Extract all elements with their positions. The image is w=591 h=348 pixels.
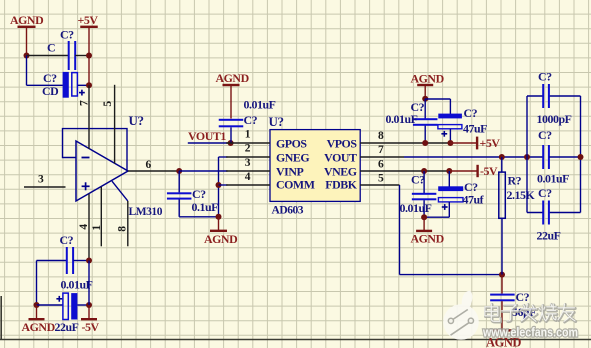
svg-text:AGND: AGND [22,320,55,334]
wire rowA right [73,260,89,262]
node: junction AGND (bottom-right) [421,214,427,220]
svg-text:C?: C? [538,128,552,142]
wire C 47uf to VNEG [448,171,450,187]
node: junction +5V/row1 [86,53,92,59]
svg-text:5: 5 [378,172,384,184]
svg-text:VOUT1: VOUT1 [188,129,226,143]
pin 6 VNEG [360,170,449,172]
node: op-amp output junction [176,168,182,174]
svg-text:C?: C? [538,70,552,84]
wire GNEG/COMM vertical [218,157,220,217]
svg-text:U?: U? [269,114,284,129]
svg-text:C?: C? [244,113,258,127]
wire C 0.01uF to VPOS [424,126,426,143]
polarity + (22uF) [56,298,62,300]
svg-text:0.01uF: 0.01uF [244,98,276,112]
power symbol AGND (0.1uF) [218,217,220,230]
wire ladder mid rung right [549,156,581,158]
wire ladder bottom rung [527,212,543,214]
svg-text:VNEG: VNEG [324,164,357,178]
resistor R? 2.15K body [499,172,506,218]
wire FDBK cap bottom lead [501,301,503,329]
wire C 47uF to VPOS [449,129,451,143]
pin 8 VPOS [360,142,450,144]
svg-text:5: 5 [102,101,114,107]
svg-text:GPOS: GPOS [276,137,307,151]
capacitor C? 47uF electrolytic (top-right) [438,114,462,119]
node: junction +5V/row2 [86,82,92,88]
svg-text:6: 6 [378,158,384,170]
capacitor C? 0.1uF [167,192,192,194]
capacitor C? 22uF (ladder) [542,201,544,225]
wire 47uf to AGND rail (bottom-right) [448,202,450,217]
pin 1 (op-amp) [100,187,102,247]
capacitor C? 0.01uF (ladder mid) [542,145,544,169]
svg-text:0.1uF: 0.1uF [192,200,219,214]
svg-text:0.01uF: 0.01uF [61,278,93,292]
svg-text:0.01uF: 0.01uF [386,112,418,126]
svg-text:7: 7 [378,144,384,156]
polarity + (47uF top) [441,133,447,135]
wire row1 right [75,55,89,57]
pin 8 (op-amp) [127,201,129,246]
power symbol AGND (FDBK) [493,329,512,331]
svg-text:C?: C? [464,106,478,120]
svg-text:22uF: 22uF [537,229,561,243]
pin 1 GPOS [226,142,270,144]
power symbol AGND (bottom-left) [36,305,38,319]
node: junction AGND/rowB [34,302,40,308]
wire FDBK cap top lead [501,275,503,294]
wire row2 right [78,84,89,86]
op-amp U? body (triangle) [76,141,128,201]
node: junction AGND rail [216,214,222,220]
capacitor C? 0.01uF (VOUT1) [219,119,244,121]
polarity + (47uf bottom) [442,206,448,208]
power symbol -5V (bottom-left) [88,305,90,319]
svg-text:8: 8 [117,226,129,232]
svg-text:C?: C? [538,186,552,200]
svg-text:VINP: VINP [276,164,303,178]
svg-text:C?: C? [516,290,530,304]
wire FDBK right [400,274,503,276]
power symbol AGND (bottom-right) [423,217,425,230]
wire ladder top rung [527,95,543,97]
wire VOUT to right ladder [404,156,543,158]
op-amp inverting input symbol - [82,157,90,159]
power symbol -5V (right) [449,170,477,172]
svg-text:0.01uF: 0.01uF [537,172,569,186]
svg-text:47uf: 47uf [463,193,485,207]
capacitor C? 0.01uF (bottom-left) [66,247,68,274]
svg-text:AGND: AGND [10,13,43,27]
svg-text:C?: C? [411,173,425,187]
wire ladder right vertical [580,96,582,213]
svg-text:3: 3 [245,157,251,169]
svg-text:C?: C? [43,71,57,85]
wire left vertical AGND to row2 [26,56,28,86]
wire rowB right [77,304,89,306]
wire R top lead [501,157,503,172]
node: junction AGND branch (top-right) [422,96,428,102]
op-amp non-inverting input symbol + [82,185,90,187]
wire C 0.01uF to AGND (bottom-right) [423,200,425,217]
polarity + (cap CD) [79,92,85,94]
svg-text:AGND: AGND [411,232,444,246]
svg-text:GNEG: GNEG [276,151,309,165]
wire row2 left [27,84,63,86]
wire VOUT1 [188,142,231,144]
wire VNEG to C 0.01uF [423,171,425,193]
watermark text dian-zi-fa-shao-you [485,304,576,322]
svg-text:AD603: AD603 [272,205,304,217]
svg-text:1000pF: 1000pF [537,112,572,126]
wire output to C 0.1uF [178,171,180,192]
wire row1 left [27,55,69,57]
node: junction VOUT1/cap [228,140,234,146]
node: junction AGND/row1 [24,53,30,59]
wire op-amp output to AD603 [179,170,227,172]
wire pin4 to -5V [88,261,90,306]
svg-text:CD: CD [42,84,58,98]
sheet border left [0,296,2,340]
svg-text:C?: C? [60,233,74,247]
svg-text:1: 1 [91,225,103,231]
svg-text:-5V: -5V [82,320,100,334]
capacitor C? 'C' (top-left) [68,41,70,70]
pin 2 GNEG [226,156,270,158]
svg-text:www.elecfans.com: www.elecfans.com [482,326,578,340]
svg-text:R?: R? [508,174,522,188]
svg-text:2.15K: 2.15K [507,188,536,202]
wire FDBK down [399,185,401,275]
svg-text:7: 7 [79,100,91,106]
svg-text:AGND: AGND [204,232,237,246]
pin 4 COMM [226,184,270,186]
capacitor C? 'CD' electrolytic (top-left) [63,72,69,98]
pin 8 lead diagonal (op-amp) [112,181,128,201]
capacitor C? 0.01uF (top-right) [413,118,438,120]
op-amp feedback wire loop [63,129,128,171]
wire cap to VOUT1 [230,127,232,143]
svg-text:47uF: 47uF [463,122,487,136]
pin 4 (op-amp V-) [88,194,90,261]
pin 7 (op-amp V+) [88,85,90,149]
pin 7 VOUT [360,156,404,158]
wire AGND branch to 47uF [425,98,450,100]
node: junction 0.01uF/VNEG [421,168,427,174]
pin 6 (op-amp output) [128,170,179,172]
svg-text:4: 4 [245,171,251,183]
capacitor C? 1000pF [542,84,544,108]
svg-text:FDBK: FDBK [325,178,357,192]
node: junction ladder right [578,154,584,160]
pin 3 (op-amp + input) [24,186,66,188]
svg-text:0.01uF: 0.01uF [400,201,432,215]
node: junction VOUT/ladder-left [524,154,530,160]
svg-text:+5V: +5V [78,13,99,27]
wire GNEG stub [219,156,228,158]
svg-text:8: 8 [378,130,384,142]
wire rowA left [37,260,68,262]
node: junction FDBK/R/C [499,272,505,278]
svg-text:LM310: LM310 [129,206,163,218]
svg-text:+5V: +5V [480,136,501,150]
node: junction -5V/rowB [86,302,92,308]
wire rowB left [37,304,64,306]
node: junction COMM [216,182,222,188]
svg-text:22uF: 22uF [55,320,79,334]
svg-text:C: C [47,41,55,55]
svg-text:3: 3 [38,174,44,186]
node: junction 47uF/VPOS [447,140,453,146]
node: junction 47uf/VNEG [446,168,452,174]
svg-text:C?: C? [192,187,206,201]
svg-text:2: 2 [245,143,251,155]
wire COMM stub [219,184,228,186]
svg-text:AGND: AGND [216,71,249,85]
wire AGND to C 0.01uF [424,99,426,119]
capacitor C? 0.01uF (bottom-right) [412,193,437,195]
svg-text:COMM: COMM [276,178,315,192]
capacitor C? (FDBK) [490,294,515,296]
watermark logo circle [443,291,479,340]
svg-text:-5V: -5V [480,164,498,178]
IC U? AD603 body [270,130,360,202]
wire R bottom lead [501,218,503,274]
svg-text:C?: C? [60,28,74,42]
capacitor C? 47uf electrolytic (bottom-right) [438,186,463,191]
svg-text:VOUT: VOUT [324,151,357,165]
pin 3 VINP [226,170,270,172]
power symbol +5V (right) [450,142,477,144]
pin 5 FDBK [360,184,399,186]
pin 5 (op-amp) [114,85,116,164]
wire C 0.1uF to AGND rail [178,200,180,217]
capacitor C? 22uF electrolytic (bottom-left) [63,293,68,319]
node: junction 0.01uF/VPOS [422,140,428,146]
svg-text:AGND: AGND [411,72,444,86]
svg-text:6: 6 [146,159,152,171]
sheet border bottom [0,339,591,341]
svg-text:4: 4 [78,224,90,230]
node: junction VOUT/R [499,154,505,160]
svg-text:1: 1 [245,129,251,141]
svg-text:VPOS: VPOS [327,137,358,151]
wire left vertical rowA-rowB [36,261,38,306]
node: junction pin4/rowA [86,258,92,264]
svg-text:U?: U? [129,113,144,128]
wire ladder left vertical [526,96,528,213]
